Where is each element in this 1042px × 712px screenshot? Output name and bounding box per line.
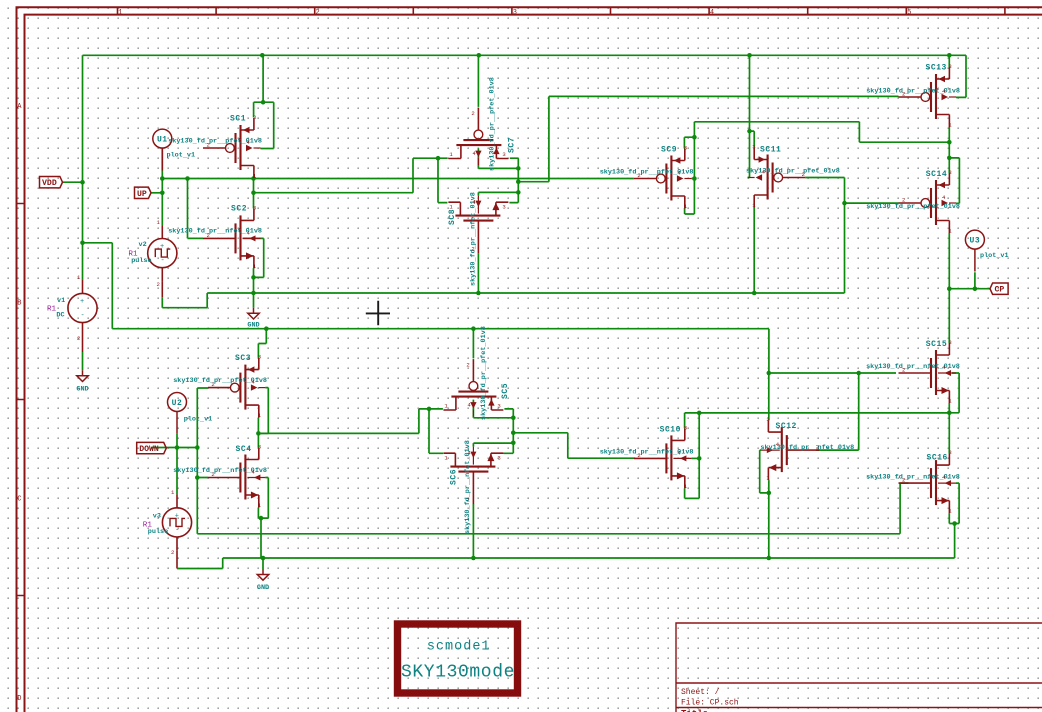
svg-text:SC10: SC10 — [660, 426, 681, 435]
svg-text:3: 3 — [948, 449, 951, 456]
svg-text:2: 2 — [211, 381, 214, 388]
svg-text:2: 2 — [466, 362, 469, 369]
ground symbol 1 (V1) — [77, 370, 88, 381]
svg-text:UP: UP — [137, 190, 147, 199]
wire DOWN row y=533.8 to SC16 gate — [197, 478, 908, 534]
svg-text:SC1: SC1 — [230, 115, 246, 124]
svg-text:v1: v1 — [57, 297, 65, 305]
transistor SC3 — [208, 358, 266, 418]
wire SC15 source down — [948, 403, 950, 413]
transistor SC6 — [443, 447, 503, 505]
wire row y=192.7 to SC7 drain net — [254, 158, 414, 193]
svg-text:SC12: SC12 — [776, 422, 797, 431]
ground symbol 2 (SC2 source) — [248, 308, 259, 319]
title block — [676, 623, 1042, 712]
transistor SC5 — [443, 359, 503, 417]
svg-text:SC16: SC16 — [927, 454, 948, 463]
svg-text:U1: U1 — [157, 136, 168, 145]
svg-text:2: 2 — [207, 232, 210, 239]
border column numbers 1-5 — [118, 9, 911, 17]
wire SC3 source down — [257, 418, 259, 434]
svg-text:pulse: pulse — [131, 257, 151, 265]
wire SC10 drain row y=412.9 — [685, 413, 950, 429]
wire SC11 gate to riser — [805, 177, 844, 179]
svg-text:4: 4 — [710, 9, 714, 17]
wire UP bus row y=178.5 — [162, 178, 634, 180]
wire SC12 bulk loop — [760, 450, 769, 493]
transistor SC12 — [762, 420, 820, 480]
wire SC3 bulk loop — [258, 388, 268, 434]
wire CP row — [949, 288, 990, 290]
svg-text:-: - — [175, 527, 179, 535]
svg-text:3: 3 — [502, 204, 505, 211]
svg-text:pulse: pulse — [148, 528, 168, 536]
wire SC7 source down right — [509, 158, 518, 202]
svg-text:+: + — [160, 243, 164, 251]
border row letters A-D — [17, 103, 22, 703]
wire GND stub 2 — [253, 293, 255, 308]
svg-text:SC5: SC5 — [501, 383, 510, 399]
title block text — [681, 688, 739, 712]
wire VDD rail branch down — [83, 243, 113, 329]
wire GND row riser to SC11/SC14 gate net — [844, 178, 846, 294]
transistor SC7 — [448, 108, 508, 166]
svg-text:2: 2 — [77, 335, 80, 342]
wire SC9 bulk stub — [691, 178, 694, 180]
svg-text:GND: GND — [247, 322, 259, 330]
voltage source V3 (pulse) — [162, 494, 191, 550]
wire SC16 bulk loop — [949, 483, 959, 523]
svg-text:sky130_fd_pr__pfet_01v8: sky130_fd_pr__pfet_01v8 — [866, 87, 960, 95]
wire SC4 drain up to row — [257, 433, 259, 447]
transistor SC13 — [899, 67, 957, 127]
svg-text:2: 2 — [816, 444, 819, 451]
svg-text:3: 3 — [253, 114, 256, 121]
V2 bottom red lead — [161, 281, 163, 297]
wire SC15 to SC16 drain — [948, 413, 950, 453]
wire row 328.7 to SC5 gate — [472, 329, 474, 359]
svg-text:3: 3 — [253, 204, 256, 211]
wire SC5/SC6 net to SC10 gate — [513, 433, 635, 458]
wire SC14 source to SC15 drain / CP node — [948, 233, 950, 343]
wire top bus to SC7 gate — [477, 55, 479, 107]
wire SC5 bulk loop — [473, 400, 513, 418]
source pin numbers — [77, 219, 175, 556]
svg-text:DC: DC — [56, 311, 64, 319]
wire GND stub 3 — [262, 558, 264, 569]
svg-text:SC14: SC14 — [926, 170, 947, 179]
svg-text:5: 5 — [907, 9, 911, 17]
wire SC13 source to SC14 drain — [948, 127, 950, 173]
svg-text:GND: GND — [257, 584, 269, 592]
wire U2 to V3 — [176, 434, 178, 494]
wire to SC14 gate — [845, 202, 899, 204]
svg-text:3: 3 — [752, 144, 755, 151]
svg-text:3: 3 — [948, 63, 951, 70]
svg-text:2: 2 — [471, 246, 474, 253]
svg-text:3: 3 — [258, 444, 261, 451]
wire SC4 source down — [257, 508, 259, 519]
svg-text:VDD: VDD — [42, 179, 57, 188]
svg-text:SC6: SC6 — [450, 469, 459, 485]
svg-text:v3: v3 — [153, 512, 161, 520]
svg-text:3: 3 — [948, 339, 951, 346]
svg-text:sky130_fd_pr__pfet_01v8: sky130_fd_pr__pfet_01v8 — [489, 77, 497, 171]
wire V3 minus / GND row y=558 — [177, 558, 955, 569]
plot marker U1 — [153, 129, 172, 170]
wire SC6 bulk loop — [473, 443, 513, 447]
svg-text:DOWN: DOWN — [139, 445, 159, 454]
svg-text:2: 2 — [902, 197, 905, 204]
svg-text:3: 3 — [497, 455, 500, 462]
plot marker U3 — [965, 230, 984, 271]
wire SC5 source down right — [503, 409, 513, 453]
svg-text:3: 3 — [766, 416, 769, 423]
svg-text:3: 3 — [684, 424, 687, 431]
wire SC3 gate riser to DOWN row — [197, 388, 208, 448]
svg-text:2: 2 — [637, 452, 640, 459]
transistor SC15 — [899, 343, 957, 403]
svg-text:sky130_fd_pr__nfet_01v8: sky130_fd_pr__nfet_01v8 — [469, 192, 477, 286]
wire SC2 bulk loop — [243, 238, 264, 277]
transistor labels — [168, 64, 960, 535]
wire SC1 source to SC2 drain — [253, 178, 255, 208]
wire V1 minus to GND — [82, 352, 84, 370]
wire SC15 bulk loop — [949, 373, 959, 413]
crosshair cursor — [366, 301, 390, 325]
wire long row y=328.7 — [112, 329, 769, 373]
wire VDD top bus with SC13 bulk loop — [83, 55, 967, 97]
wire SC11 source to GND row — [753, 208, 755, 294]
wire SC9 drain-source loop — [684, 122, 694, 214]
svg-text:R1: R1 — [47, 305, 57, 313]
svg-text:3: 3 — [684, 145, 687, 152]
svg-text:3: 3 — [502, 151, 505, 158]
V1 bottom red lead — [82, 336, 84, 352]
transistor SC10 — [634, 428, 692, 488]
wire SC2 source to GND row — [253, 268, 255, 293]
wire SC16 source to GND row — [954, 524, 956, 559]
svg-text:sky130_fd_pr__nfet_01v8: sky130_fd_pr__nfet_01v8 — [866, 363, 960, 371]
svg-text:plot_v1: plot_v1 — [184, 416, 213, 424]
wire U1 stub to bus — [161, 147, 163, 178]
svg-text:D: D — [17, 695, 21, 703]
wire SC7 source net to SC13 gate — [518, 96, 898, 181]
svg-text:2: 2 — [802, 171, 805, 178]
svg-text:Sheet: /: Sheet: / — [681, 688, 720, 697]
svg-text:3: 3 — [513, 9, 517, 17]
wire VDD label to rail — [63, 181, 83, 183]
svg-text:plot_v1: plot_v1 — [167, 152, 196, 160]
wire SC10 bulk stub — [691, 457, 699, 459]
transistor SC1 — [203, 118, 261, 178]
wire SC12 drain up — [768, 373, 770, 420]
transistor SC9 — [634, 149, 692, 209]
svg-text:2: 2 — [902, 91, 905, 98]
transistor SC14 — [899, 173, 957, 233]
svg-text:-: - — [81, 312, 85, 320]
svg-text:2: 2 — [902, 367, 905, 374]
svg-text:C: C — [17, 496, 21, 504]
svg-text:2: 2 — [157, 281, 160, 288]
svg-text:SC9: SC9 — [661, 146, 677, 155]
wire SC7 drain stub — [413, 157, 447, 159]
wire SC14 bulk loop — [949, 158, 959, 204]
net label VDD — [40, 177, 63, 188]
svg-text:SC7: SC7 — [508, 137, 517, 153]
svg-text:CP: CP — [995, 286, 1005, 295]
wire SC4 bulk loop — [258, 478, 268, 519]
svg-text:2: 2 — [207, 142, 210, 149]
wire SC4 source to GND row — [260, 518, 262, 558]
voltage source V2 (pulse) — [148, 225, 177, 281]
wire SC10 source loop — [685, 413, 700, 499]
wire SC15 gate row / SC12 gate riser — [769, 373, 896, 450]
wire DOWN to SC4 gate — [177, 448, 208, 478]
wire U3 stub — [974, 272, 976, 288]
svg-text:2: 2 — [316, 9, 320, 17]
wire DOWN label stub — [151, 447, 177, 449]
scmode1 SKY130mode box — [398, 624, 518, 693]
wire SC6 gate to GND row 558 — [472, 504, 474, 558]
wire SC3 drain to row 328.7 — [258, 329, 266, 358]
svg-text:plot_v1: plot_v1 — [980, 252, 1009, 260]
svg-text:v2: v2 — [139, 241, 147, 249]
svg-text:scmode1: scmode1 — [427, 640, 491, 655]
plot marker U2 — [168, 393, 187, 434]
svg-text:U3: U3 — [970, 237, 981, 246]
svg-text:2: 2 — [471, 110, 474, 117]
svg-text:sky130_fd_pr__pfet_01v8: sky130_fd_pr__pfet_01v8 — [480, 326, 488, 420]
net label DOWN — [137, 442, 167, 453]
svg-text:SC8: SC8 — [448, 209, 457, 225]
wire SC7/SC8 drain tie — [438, 158, 447, 202]
wire SC11 drain/bulk from top bus — [748, 55, 755, 177]
ground symbol 3 (bottom) — [257, 569, 268, 580]
wire SC12 source to GND row — [768, 480, 770, 558]
svg-text:SC3: SC3 — [235, 354, 251, 363]
svg-text:1: 1 — [118, 9, 122, 17]
wire SC13 drain stub — [948, 55, 950, 67]
svg-text:sky130_fd_pr__pfet_01v8: sky130_fd_pr__pfet_01v8 — [746, 167, 840, 175]
svg-text:SC11: SC11 — [760, 146, 781, 155]
wire SC16 source down — [948, 513, 950, 523]
wire bus to SC2 gate — [188, 179, 204, 239]
net label CP — [990, 283, 1008, 294]
svg-text:SKY130mode: SKY130mode — [401, 663, 515, 683]
svg-text:+: + — [80, 298, 84, 306]
transistor SC8 — [448, 196, 508, 254]
svg-text:2: 2 — [211, 471, 214, 478]
svg-text:SC4: SC4 — [236, 445, 252, 454]
V3 bottom red lead — [176, 550, 178, 568]
svg-text:3: 3 — [258, 354, 261, 361]
wire SC8 bulk loop — [478, 192, 518, 195]
svg-text:B: B — [17, 300, 21, 308]
svg-text:+: + — [175, 512, 179, 520]
svg-text:U2: U2 — [172, 399, 183, 408]
svg-text:SC15: SC15 — [926, 340, 947, 349]
transistor SC2 — [203, 208, 261, 268]
wire V2 minus to GND row — [162, 293, 207, 308]
svg-text:SC2: SC2 — [231, 205, 247, 214]
wire SC1 drain-bulk loop — [254, 55, 274, 148]
wire row y=121.8 to SC13 source — [694, 122, 949, 142]
wire U1/V2 vertical — [161, 179, 163, 226]
transistor SC16 — [899, 453, 957, 513]
svg-text:-: - — [161, 257, 165, 265]
svg-text:sky130_fd_pr__nfet_01v8: sky130_fd_pr__nfet_01v8 — [760, 444, 854, 452]
wire row y=433.4 — [258, 409, 419, 434]
voltage source V1 (DC) — [68, 280, 97, 336]
svg-text:SC13: SC13 — [926, 64, 947, 73]
svg-text:3: 3 — [948, 169, 951, 176]
svg-text:2: 2 — [466, 497, 469, 504]
net label UP — [135, 187, 152, 198]
svg-text:2: 2 — [902, 477, 905, 484]
wire SC8 gate to GND row — [477, 253, 479, 293]
svg-text:2: 2 — [637, 172, 640, 179]
svg-text:GND: GND — [76, 386, 88, 394]
svg-text:sky130_fd_pr__nfet_01v8: sky130_fd_pr__nfet_01v8 — [866, 474, 960, 482]
transistor SC11 — [748, 148, 806, 208]
wire UP label stub — [151, 192, 162, 194]
border ruler ticks top — [17, 7, 1005, 595]
wire SC7 bulk loop — [478, 148, 518, 168]
wire VDD rail left — [82, 55, 84, 280]
svg-text:2: 2 — [171, 549, 174, 556]
wire to SC5 left pin — [419, 408, 443, 410]
svg-text:3: 3 — [497, 403, 500, 410]
svg-text:File: CP.sch: File: CP.sch — [681, 699, 739, 708]
transistor SC4 — [208, 448, 266, 508]
wire SC5 left to SC6 left — [429, 409, 443, 453]
svg-text:sky130_fd_pr__pfet_01v8: sky130_fd_pr__pfet_01v8 — [866, 203, 960, 211]
wire GND row y=293 — [207, 292, 844, 294]
